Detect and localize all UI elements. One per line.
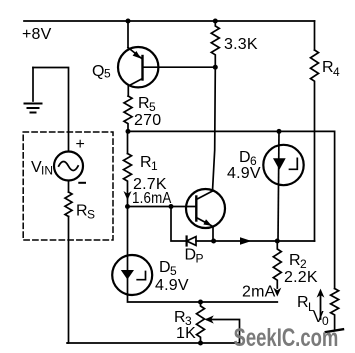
transistor Q5 emitter arrowhead PNP <box>133 51 141 59</box>
node junction dot emitter <box>211 239 216 244</box>
transistor pass emitter lead <box>196 218 213 242</box>
svg-text:R: R <box>140 154 152 171</box>
wire Q5 base to 3.3K node <box>143 66 216 68</box>
resistor R2 zigzag <box>273 241 281 288</box>
wire emitter node to R2 node <box>214 240 278 242</box>
zener D5 cathode hook <box>137 272 145 280</box>
svg-text:2.2K: 2.2K <box>284 269 318 286</box>
wire base rail to pass transistor <box>128 206 197 208</box>
transistor Q5 circle <box>118 47 158 87</box>
source VIN circle <box>54 152 83 181</box>
zener D5 triangle <box>121 270 134 280</box>
svg-text:4.9V: 4.9V <box>155 277 189 294</box>
arrow V0 arrowhead <box>317 289 325 298</box>
resistor R4 zigzag <box>311 50 319 241</box>
svg-text:D: D <box>185 247 197 264</box>
svg-text:+8V: +8V <box>22 26 52 43</box>
wire pass transistor collector up to 3.3K node <box>213 67 216 191</box>
svg-text:D: D <box>239 149 251 166</box>
node junction dot R3 top <box>198 300 203 305</box>
diode Dp triangle <box>187 237 196 246</box>
wire D6 through vertical <box>278 131 279 241</box>
zener D6 triangle <box>273 158 286 170</box>
svg-text:R: R <box>322 59 334 76</box>
svg-text:S: S <box>87 208 95 222</box>
svg-text:D: D <box>159 259 171 276</box>
svg-text:1.6mA: 1.6mA <box>132 190 172 207</box>
svg-text:4: 4 <box>333 65 340 79</box>
svg-text:1K: 1K <box>176 325 196 342</box>
node junction dot 3.3K bottom / Q5 base / pass collector <box>213 65 218 70</box>
source VIN sine <box>59 162 78 171</box>
node junction dot R2 top <box>275 239 280 244</box>
svg-text:Q: Q <box>92 63 105 80</box>
ground symbol top left vertical <box>32 68 34 102</box>
wire ground to VIN top <box>33 68 69 152</box>
svg-text:SeekIC.com: SeekIC.com <box>234 323 339 351</box>
node junction dot R1 bottom / base rail / D5 top <box>125 204 130 209</box>
arrow R3 wiper arrowhead <box>205 315 214 323</box>
svg-text:R: R <box>76 203 88 220</box>
svg-text:2mA: 2mA <box>242 283 276 300</box>
transistor pass emitter arrowhead NPN <box>203 219 211 226</box>
arrow V0 output <box>320 292 322 319</box>
diode Dp cathode bar <box>186 237 188 246</box>
wire horizontal mid rail to right column <box>128 131 335 288</box>
resistor RL zigzag <box>331 289 339 330</box>
transistor pass base bar <box>195 197 197 221</box>
node junction dot R3 bottom <box>198 341 203 346</box>
arrow 2mA current down R2 <box>273 288 281 297</box>
wire RL bottom bar <box>326 329 343 332</box>
svg-text:IN: IN <box>41 164 53 178</box>
wire R2 node to R4 bottom <box>277 240 314 242</box>
zener D6 circle <box>263 145 303 185</box>
node junction dot Q5 emitter on +8V rail <box>126 19 131 24</box>
svg-text:R: R <box>289 252 301 269</box>
resistor R3 zigzag <box>197 302 205 343</box>
node junction dot 3.3K top <box>213 19 218 24</box>
resistor R5 zigzag <box>124 96 132 131</box>
transistor Q5 collector lead <box>128 79 142 97</box>
label VIN minus <box>79 182 85 184</box>
wire +8V rail to Q5 emitter <box>127 21 129 48</box>
transistor pass device circle <box>186 189 225 228</box>
transistor pass collector lead <box>196 191 212 200</box>
wire Dp branch down <box>171 207 187 242</box>
resistor RS zigzag <box>65 192 72 217</box>
svg-text:270: 270 <box>134 112 161 129</box>
resistor R1 wire from R5 node <box>127 131 129 153</box>
svg-text:+: + <box>76 136 86 153</box>
resistor 3.3K zigzag <box>211 21 219 67</box>
wire Dp to emitter node <box>196 240 214 242</box>
transistor Q5 base bar <box>141 56 143 80</box>
svg-text:R: R <box>138 95 150 112</box>
wire D5 bottom to R2 arrow node <box>128 295 278 302</box>
arrow 1.6mA current down R1 wire <box>124 191 132 200</box>
zener D5 circle <box>112 255 152 295</box>
dashed box around source <box>23 132 113 240</box>
svg-text:1: 1 <box>151 159 158 173</box>
ground symbol bars <box>25 104 42 113</box>
resistor R1 zigzag <box>124 154 132 207</box>
svg-text:R: R <box>297 294 309 311</box>
zener D5 wire through <box>127 207 129 296</box>
resistor R4 top wire from rail <box>314 21 316 50</box>
zener D6 cathode hook <box>290 158 298 169</box>
wire R3 wiper <box>207 320 240 344</box>
svg-text:4.9V: 4.9V <box>227 165 261 182</box>
transistor Q5 emitter lead <box>128 48 142 59</box>
wire top +8V rail <box>24 20 315 22</box>
svg-text:5: 5 <box>104 67 111 81</box>
svg-text:5: 5 <box>170 264 177 278</box>
wire VIN to RS <box>68 181 70 193</box>
wire RS down to bottom rail <box>67 217 68 344</box>
svg-text:P: P <box>196 252 204 266</box>
svg-text:R: R <box>174 309 186 326</box>
wire bottom rail <box>67 342 239 344</box>
node junction dot Dp branch <box>169 204 174 209</box>
node junction dot D6 top <box>277 129 282 134</box>
arrow current right on emitter wire <box>240 237 252 245</box>
svg-text:3.3K: 3.3K <box>224 36 258 53</box>
node junction dot R5 bottom <box>126 129 131 134</box>
